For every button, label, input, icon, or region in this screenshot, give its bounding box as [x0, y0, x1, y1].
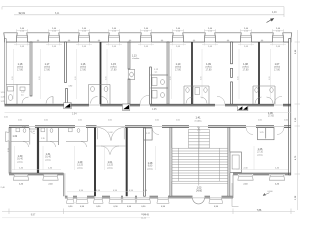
svg-text:7,86: 7,86 [257, 210, 262, 212]
middle wing west wall [64, 173, 66, 196]
room labels upper block [17, 63, 281, 71]
unit 1.31 bath band [39, 128, 58, 148]
svg-text:13,25: 13,25 [77, 165, 83, 167]
svg-text:1.29: 1.29 [78, 161, 83, 164]
corridor centre line [5, 111, 292, 113]
bath cluster rooms 3-4 [89, 85, 111, 105]
interior window sill dimension rows [14, 43, 286, 45]
entrance door bump [193, 198, 205, 204]
bath cluster room1 [6, 85, 30, 105]
top facade inner wall line [5, 41, 292, 43]
svg-text:pokoj: pokoj [17, 161, 23, 163]
wall wc/room5 [167, 42, 169, 104]
wall room5/6 (solid) [191, 42, 193, 104]
svg-text:6,06: 6,06 [237, 76, 239, 80]
window head dim ticks [17, 29, 284, 33]
exterior stair bottom right [232, 183, 239, 207]
svg-text:6,06: 6,06 [170, 76, 172, 80]
svg-text:1.22: 1.22 [21, 92, 25, 94]
bottom dimension line [2, 209, 295, 215]
interior dim row above middle south wall [67, 191, 145, 193]
window head dimension labels [20, 28, 281, 32]
svg-text:6,06: 6,06 [39, 76, 41, 80]
svg-text:1.32: 1.32 [13, 136, 18, 138]
stair lower flights [172, 148, 228, 181]
left exterior wall upper block [5, 39, 7, 105]
wall room6/7 [231, 42, 233, 64]
svg-text:16,40: 16,40 [17, 159, 23, 161]
svg-text:pokoj: pokoj [107, 167, 113, 169]
step west of right wing [232, 175, 234, 198]
svg-text:4,49: 4,49 [272, 12, 277, 14]
svg-text:6,06: 6,06 [105, 76, 107, 80]
lower wall door thin lines [29, 126, 284, 128]
middle wing party wall 1 [94, 128, 96, 197]
right wing south wall [233, 173, 291, 175]
svg-text:pokoj: pokoj [77, 167, 83, 169]
courtyard arrow mark [263, 193, 270, 196]
unit 1.30 bath band [11, 128, 37, 148]
svg-text:16,40: 16,40 [45, 157, 51, 159]
middle wing south windows [66, 198, 74, 203]
svg-text:6,06: 6,06 [12, 76, 14, 80]
entry double door arcs [98, 128, 125, 141]
svg-text:1.26: 1.26 [258, 148, 263, 151]
west window of lower-left wing [6, 132, 10, 142]
svg-text:27,10: 27,10 [257, 152, 263, 154]
top facade window glazing lines [17, 35, 284, 38]
svg-text:1.35: 1.35 [41, 138, 45, 140]
svg-text:1.28: 1.28 [148, 162, 153, 165]
wall room1/2 [30, 42, 32, 96]
svg-text:24,60: 24,60 [196, 190, 202, 192]
svg-text:1.31: 1.31 [46, 153, 51, 156]
south window labels middle [68, 206, 166, 208]
svg-text:1.04: 1.04 [72, 114, 77, 116]
bath cluster rooms 7-8 [253, 86, 275, 104]
svg-text:6,06: 6,06 [200, 76, 202, 80]
step between left wing and middle wing [63, 173, 65, 196]
svg-text:0,000: 0,000 [268, 191, 274, 193]
svg-text:17,80: 17,80 [206, 68, 213, 71]
svg-text:32,31: 32,31 [19, 11, 26, 15]
overall top dimension line [2, 7, 284, 10]
right wing closet box [258, 128, 275, 140]
section marker triangle 1 [64, 103, 71, 109]
lower-left windows (south) [13, 175, 28, 180]
lower-left sill dim row [12, 169, 61, 171]
interior vertical dim lines [14, 49, 271, 99]
svg-text:2,5: 2,5 [21, 95, 24, 97]
svg-text:1.05: 1.05 [152, 109, 157, 111]
room 1.28 closet [144, 128, 153, 140]
middle wing partition 3 [144, 128, 146, 197]
svg-text:13,25: 13,25 [107, 165, 113, 167]
stairwell left wall [170, 128, 172, 197]
svg-text:1.33: 1.33 [22, 126, 26, 128]
stair upper flight [189, 130, 210, 149]
svg-text:17,80: 17,80 [80, 68, 87, 71]
lower rooms vertical dim lines [15, 146, 255, 170]
unit bath tiny labels [22, 126, 45, 140]
lower block north wall [9, 126, 291, 128]
corridor dim texts [4, 117, 289, 122]
svg-text:27,65: 27,65 [268, 116, 274, 118]
lower wall door arcs [29, 128, 284, 135]
right exterior wall [289, 39, 291, 175]
svg-text:6,11: 6,11 [55, 13, 60, 15]
svg-text:0,80: 0,80 [69, 86, 73, 88]
right dimension column [295, 30, 301, 210]
unit 1.29 bath band [66, 128, 88, 148]
elevator box [230, 152, 242, 173]
svg-text:chodba: chodba [132, 58, 140, 60]
hall wc box [128, 70, 135, 80]
lower-left wing left wall [9, 128, 11, 174]
svg-text:17,80: 17,80 [17, 68, 24, 71]
right wing sill dim row [236, 169, 288, 171]
lower-left south wall [9, 173, 64, 175]
svg-text:1.03: 1.03 [197, 187, 202, 190]
section marker triangle pair [237, 106, 248, 111]
section marker triangle 2 [122, 104, 129, 110]
corridor north wall (dark) [5, 104, 292, 106]
wall room3/4 (solid) [100, 42, 102, 104]
stair landing line [172, 183, 228, 185]
svg-text:1.34: 1.34 [31, 131, 35, 133]
svg-text:28,89: 28,89 [141, 214, 147, 216]
north arrow mark top right [267, 19, 274, 23]
svg-text:17,80: 17,80 [175, 68, 182, 71]
svg-text:1.01: 1.01 [108, 161, 113, 164]
stair walking line [198, 128, 201, 186]
middle wing party wall 2 [126, 128, 128, 197]
svg-text:chodba: chodba [194, 120, 202, 122]
svg-text:17,80: 17,80 [243, 68, 250, 71]
secondary bottom line [2, 217, 150, 219]
hall partitions [151, 75, 169, 98]
svg-text:pokoj: pokoj [147, 168, 153, 170]
door leaf lines in corridor wall openings [89, 104, 283, 106]
door arc room2 [46, 97, 53, 104]
wall room7/8 (solid) [258, 42, 260, 104]
svg-text:pokoj: pokoj [45, 159, 51, 161]
pier tick marks [37, 39, 263, 41]
svg-text:1.30: 1.30 [18, 155, 23, 158]
svg-text:17,80: 17,80 [44, 68, 51, 71]
lower-left closet partition [58, 128, 60, 146]
lower-left wing party wall [37, 128, 39, 174]
svg-text:9,97: 9,97 [31, 215, 36, 217]
second top dimension line [14, 10, 284, 17]
wall room4/hall [128, 42, 130, 69]
hall/wc partition [150, 67, 152, 104]
svg-text:1.06: 1.06 [268, 112, 273, 115]
wall room2/3 [65, 42, 67, 83]
corridor opening arcs [140, 95, 282, 104]
entry vestibule lines [96, 146, 126, 155]
svg-text:6,06: 6,06 [269, 76, 271, 80]
svg-text:17,80: 17,80 [274, 68, 281, 71]
stairwell right wall [228, 128, 230, 197]
svg-text:pokoj: pokoj [257, 154, 263, 156]
south window right of door [209, 198, 223, 203]
middle wing south wall [65, 196, 233, 198]
top facade piers [4, 33, 292, 42]
svg-text:1.41: 1.41 [195, 116, 201, 120]
svg-text:6,06: 6,06 [75, 76, 77, 80]
bath cluster rooms 5-6 [184, 86, 209, 104]
svg-text:17,80: 17,80 [111, 68, 118, 71]
right column labels [295, 49, 297, 200]
svg-text:9,80: 9,80 [148, 166, 153, 168]
right wing south windows [238, 175, 253, 180]
